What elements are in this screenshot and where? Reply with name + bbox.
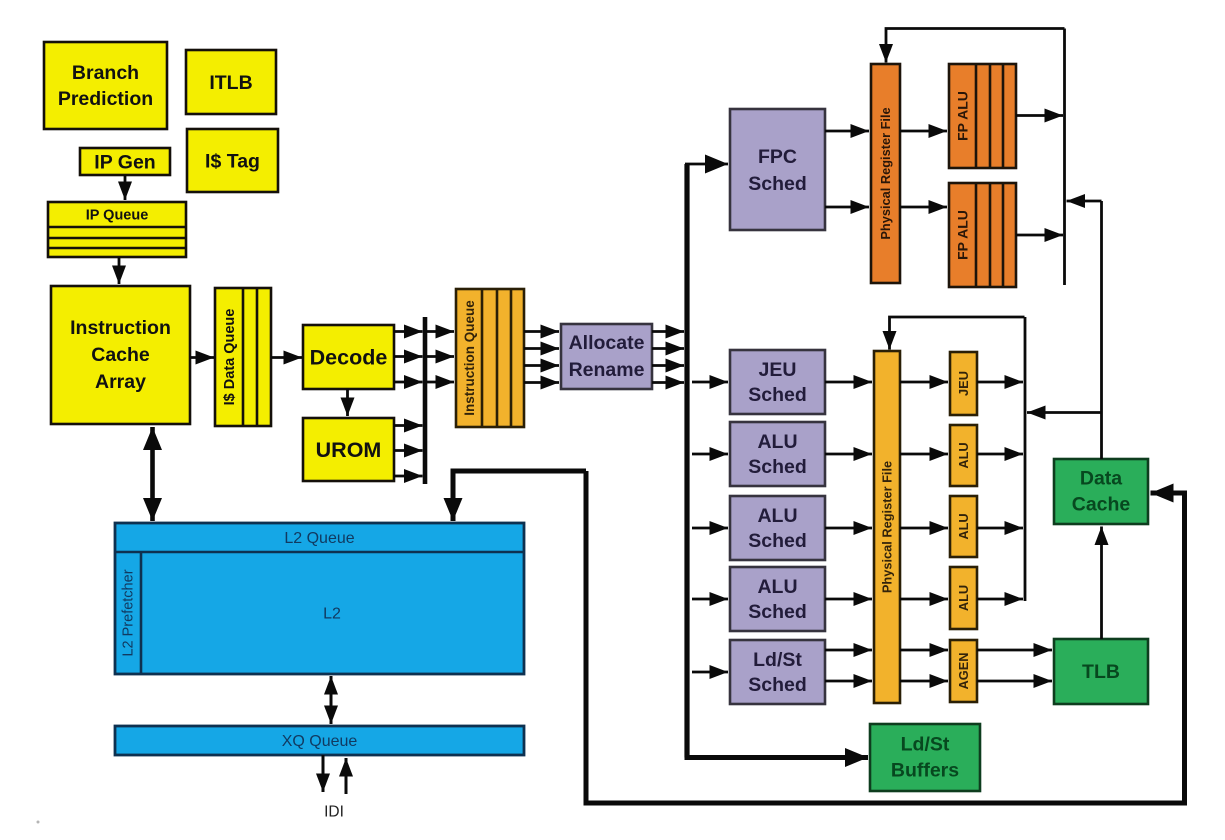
svg-text:Branch: Branch	[72, 62, 139, 84]
box ALU unit 2	[950, 496, 977, 557]
wire Instruction Queue to Allocate row2	[524, 347, 559, 350]
wire Instruction Cache Array to L2 double arrow	[150, 427, 155, 521]
wire FP register file to FP ALU top	[900, 130, 947, 133]
svg-text:Rename: Rename	[569, 359, 645, 381]
wire ALU Sched 3 to register file	[825, 598, 872, 601]
box FP ALU bottom	[949, 183, 1016, 287]
svg-text:ALU: ALU	[757, 505, 797, 527]
wire IDI to XQ Queue up arrow	[345, 758, 348, 794]
box Ld/St Buffers	[870, 724, 980, 791]
box Instruction Queue	[456, 289, 524, 427]
wire Decode to bus row3	[394, 381, 423, 384]
box FPC Sched	[730, 109, 825, 230]
box ALU Sched 2	[730, 496, 825, 560]
wire IP Gen to IP Queue	[124, 175, 127, 200]
wire UROM to bus row1	[394, 424, 423, 427]
speck bottom left	[37, 821, 40, 824]
wire register file to ALU 2	[900, 527, 948, 530]
box FP Physical Register File	[871, 64, 900, 283]
wire dispatch bus to ALU Sched 3	[692, 598, 728, 601]
wire bus to Instruction Queue row2	[427, 355, 454, 358]
wire riser branch to FP writeback bus	[1067, 200, 1102, 203]
box ITLB	[186, 50, 276, 114]
wire Instruction Queue to Allocate row4	[524, 381, 559, 384]
wire TLB to Data Cache	[1100, 527, 1103, 640]
svg-text:Ld/St: Ld/St	[901, 734, 950, 756]
wire XQ Queue to IDI down arrow	[322, 755, 325, 792]
wire register file to AGEN row2	[900, 680, 948, 683]
wire bus to Instruction Queue row3	[427, 381, 454, 384]
wire dispatch bus to JEU Sched	[692, 381, 728, 384]
wire JEU Sched to register file	[825, 381, 872, 384]
wire FPC Sched to FP register file row1	[825, 130, 869, 133]
box UROM	[303, 418, 394, 481]
box Allocate Rename	[561, 324, 652, 389]
wire Data Cache riser vertical	[1100, 201, 1103, 459]
box integer Physical Register File	[874, 351, 900, 703]
svg-text:Sched: Sched	[748, 384, 807, 406]
box Instruction Cache Array	[51, 286, 190, 424]
box ALU Sched 3	[730, 567, 825, 631]
wire Allocate to dispatch bus row4	[652, 381, 684, 384]
svg-text:UROM: UROM	[316, 438, 382, 462]
box ALU unit 1	[950, 425, 977, 486]
wire Decode to bus row2	[394, 355, 423, 358]
box JEU Sched	[730, 350, 825, 414]
svg-text:ALU: ALU	[757, 431, 797, 453]
wire Allocate to dispatch bus row1	[652, 330, 684, 333]
wire FPC Sched to FP register file row2	[825, 206, 869, 209]
wire Instruction Cache Array to I$ Data Queue	[190, 356, 214, 359]
svg-text:Sched: Sched	[748, 674, 807, 696]
box L2 with L2 Queue and L2 Prefetcher	[115, 523, 524, 674]
svg-text:XQ Queue: XQ Queue	[282, 733, 358, 750]
svg-text:TLB: TLB	[1082, 661, 1120, 683]
svg-text:ALU: ALU	[956, 585, 971, 611]
wire ALU Sched 2 to register file	[825, 527, 872, 530]
wire dispatch bus to ALU Sched 2	[692, 527, 728, 530]
wire Allocate to dispatch bus row2	[652, 347, 684, 350]
box JEU unit	[950, 352, 977, 415]
wire Decode to UROM	[346, 389, 349, 416]
svg-text:Allocate: Allocate	[569, 332, 645, 354]
wire Ld/St Sched to register file row2	[825, 680, 872, 683]
box ALU Sched 1	[730, 422, 825, 486]
svg-text:Sched: Sched	[748, 530, 807, 552]
wire register file to AGEN row1	[900, 649, 948, 652]
wire ALU 3 output to writeback bus	[977, 598, 1023, 601]
svg-text:Ld/St: Ld/St	[753, 649, 802, 671]
wire store path into L2 Queue	[453, 471, 586, 521]
bus integer writeback vertical	[1024, 317, 1027, 601]
svg-text:IP Queue: IP Queue	[86, 208, 149, 224]
wire Instruction Queue to Allocate row1	[524, 330, 559, 333]
bus FP writeback vertical	[1063, 29, 1066, 286]
wire Instruction Queue to Allocate row3	[524, 364, 559, 367]
svg-text:JEU: JEU	[759, 359, 797, 381]
wire FP writeback loop to FP register file top	[886, 29, 1065, 63]
wire integer writeback loop to register file top	[890, 317, 1025, 350]
svg-text:L2: L2	[323, 606, 341, 623]
box FP ALU top	[949, 64, 1016, 168]
box I$ Data Queue	[215, 288, 271, 426]
box XQ Queue	[115, 726, 524, 755]
svg-text:Buffers: Buffers	[891, 760, 959, 782]
svg-text:L2 Queue: L2 Queue	[284, 530, 354, 547]
svg-text:JEU: JEU	[956, 371, 971, 396]
box ALU unit 3	[950, 567, 977, 629]
wire register file to JEU	[900, 381, 948, 384]
svg-text:Cache: Cache	[1072, 494, 1131, 516]
svg-text:I$ Tag: I$ Tag	[205, 151, 260, 173]
svg-text:Array: Array	[95, 371, 146, 393]
svg-text:ITLB: ITLB	[209, 72, 252, 94]
bus dispatch vertical	[684, 164, 689, 758]
wire register file to ALU 1	[900, 453, 948, 456]
wire ALU 1 output to writeback bus	[977, 453, 1023, 456]
wire Decode to bus row1	[394, 330, 423, 333]
svg-text:Sched: Sched	[748, 173, 807, 195]
svg-text:L2 Prefetcher: L2 Prefetcher	[121, 569, 137, 656]
svg-text:ALU: ALU	[757, 576, 797, 598]
svg-text:Sched: Sched	[748, 601, 807, 623]
wire bus to Instruction Queue row1	[427, 330, 454, 333]
box AGEN unit	[950, 640, 977, 702]
wire dispatch bus to Ld/St Sched	[692, 671, 728, 674]
wire IP Queue to Instruction Cache Array	[118, 257, 121, 284]
wire register file to ALU 3	[900, 598, 948, 601]
wire dispatch bus to FPC Sched	[685, 163, 728, 166]
wire L2 to XQ Queue double arrow	[330, 676, 333, 724]
bus decode output vertical	[423, 317, 428, 484]
box Decode	[303, 325, 394, 389]
wire ALU Sched 1 to register file	[825, 453, 872, 456]
svg-text:Decode: Decode	[310, 346, 388, 370]
svg-text:Prediction: Prediction	[58, 88, 153, 110]
wire AGEN to TLB row2	[977, 680, 1052, 683]
box Branch Prediction	[44, 42, 167, 129]
svg-text:Instruction: Instruction	[70, 317, 171, 339]
wire dispatch bus to Ld/St Buffers	[685, 755, 869, 760]
wire Allocate to dispatch bus row3	[652, 364, 684, 367]
box TLB	[1054, 639, 1148, 704]
wire Ld/St Sched to register file row1	[825, 649, 872, 652]
svg-text:Instruction Queue: Instruction Queue	[462, 300, 477, 416]
box IP Queue	[48, 202, 186, 257]
wire UROM to bus row2	[394, 449, 423, 452]
svg-text:FPC: FPC	[758, 146, 797, 168]
wire store path loop to Data Cache	[586, 471, 1185, 803]
svg-text:FP ALU: FP ALU	[955, 210, 971, 260]
svg-text:FP ALU: FP ALU	[955, 91, 971, 141]
svg-text:Physical Register File: Physical Register File	[880, 461, 895, 593]
wire dispatch bus to ALU Sched 1	[692, 453, 728, 456]
box I$ Tag	[187, 129, 278, 192]
wire I$ Data Queue to Decode	[271, 356, 302, 359]
wire riser branch to integer writeback bus	[1027, 411, 1102, 414]
wire FP register file to FP ALU bottom	[900, 206, 947, 209]
wire FP ALU top output to FP writeback bus	[1016, 114, 1063, 117]
svg-text:AGEN: AGEN	[956, 653, 971, 690]
svg-text:Physical Register File: Physical Register File	[878, 107, 893, 239]
box Data Cache	[1054, 459, 1148, 524]
box IP Gen	[80, 148, 170, 175]
svg-text:Cache: Cache	[91, 344, 150, 366]
wire FP ALU bottom output to FP writeback bus	[1016, 234, 1063, 237]
box Ld/St Sched	[730, 640, 825, 704]
svg-text:IDI: IDI	[324, 804, 344, 821]
svg-text:Data: Data	[1080, 468, 1122, 490]
svg-text:Sched: Sched	[748, 456, 807, 478]
svg-text:ALU: ALU	[956, 513, 971, 539]
svg-text:IP Gen: IP Gen	[94, 152, 155, 174]
svg-text:I$ Data Queue: I$ Data Queue	[222, 309, 238, 406]
wire UROM to bus row3	[394, 475, 423, 478]
svg-text:ALU: ALU	[956, 442, 971, 468]
wire AGEN to TLB row1	[977, 649, 1052, 652]
wire JEU output to writeback bus	[977, 381, 1023, 384]
wire ALU 2 output to writeback bus	[977, 527, 1023, 530]
